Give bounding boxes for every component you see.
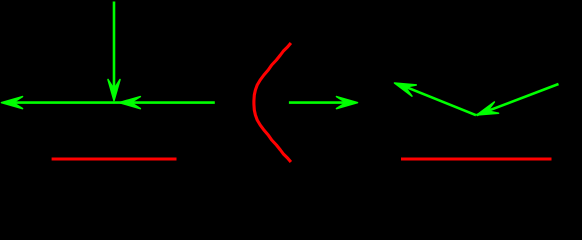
arrowhead left at mid-line [119, 97, 140, 109]
arrowhead down on vertical ray [108, 80, 120, 101]
arrowhead at vertex (incident) [475, 102, 499, 121]
arrowhead at end (reflected) [392, 77, 416, 96]
wire: horizontal green ray (middle) [289, 101, 353, 104]
red line: right mirror [401, 158, 552, 161]
wire: horizontal green ray (left group) [5, 101, 215, 104]
wire: vertical green ray (left group) [113, 2, 116, 96]
wire: incident green ray (right group) [477, 84, 559, 115]
arrowhead left at far left end [2, 97, 23, 109]
red line: left mirror [52, 158, 177, 161]
arrowhead right (middle) [337, 97, 358, 109]
red arc: concave mirror (middle) [254, 43, 291, 162]
wire: reflected green ray (right group) [399, 84, 476, 115]
